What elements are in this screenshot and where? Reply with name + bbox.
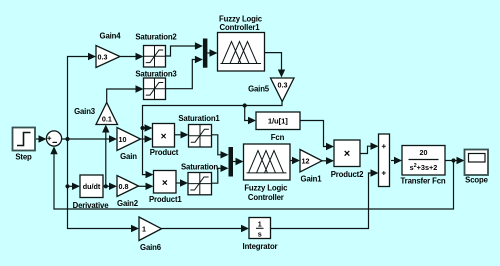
svg-text:×: × (162, 178, 168, 189)
wire feedback to Sum (50, 146, 453, 209)
integrator 1/s (243, 218, 278, 251)
svg-text:Gain6: Gain6 (140, 243, 162, 252)
svg-text:Gain: Gain (120, 152, 137, 161)
svg-text:Scope: Scope (465, 176, 488, 185)
wire Saturation to Mux2 input2 (212, 165, 229, 184)
svg-text:×: × (344, 148, 350, 160)
svg-text:12: 12 (302, 157, 310, 166)
mux Mux2 (229, 147, 234, 177)
wire error branch down to Derivative and Gain6 (68, 139, 140, 232)
product Product (150, 124, 179, 157)
svg-text:Gain4: Gain4 (100, 31, 122, 40)
transfer function Transfer Fcn 20/(s2+3s+2) (401, 146, 446, 186)
adder Add (379, 134, 390, 187)
node derivative branch junction (65, 184, 69, 188)
svg-text:Fcn: Fcn (271, 133, 285, 142)
svg-text:Gain5: Gain5 (248, 85, 270, 94)
wire Saturation3 to Mux1 input2 (166, 56, 203, 89)
svg-text:0.3: 0.3 (98, 52, 108, 61)
wire Fcn to Product2 input1 (300, 121, 334, 151)
svg-text:0.8: 0.8 (119, 182, 129, 191)
gain Gain1 value 12 (300, 150, 322, 184)
wire Product2 to Add input1 (360, 143, 379, 154)
wire Product1 to Saturation (176, 179, 188, 186)
fuzzy controller Fuzzy Logic Controller1 (218, 14, 265, 71)
svg-text:Saturation2: Saturation2 (135, 33, 177, 42)
svg-text:Product: Product (150, 148, 179, 157)
wire branch to Derivative (68, 183, 81, 190)
svg-text:Gain1: Gain1 (301, 174, 323, 183)
wire derivative node up to Gain3 (102, 125, 109, 187)
svg-text:1/u[1]: 1/u[1] (268, 117, 288, 126)
svg-text:du/dt: du/dt (83, 182, 101, 191)
gain Gain6 value 1 (139, 217, 162, 252)
wire Add to Transfer Fcn (391, 157, 402, 164)
source Step (13, 128, 36, 162)
saturation Saturation (181, 162, 218, 195)
wire Fuzzy Logic Controller1 to Gain5 (265, 53, 286, 78)
gain Gain2 value 0.8 (117, 176, 139, 208)
wire branch to Product input1 (143, 124, 153, 131)
svg-text:s: s (258, 230, 262, 239)
derivative du/dt (73, 175, 110, 210)
wire Gain2 to Product1 input2 (139, 183, 154, 190)
wire error branch up to Gain4 (68, 53, 97, 139)
svg-text:0.1: 0.1 (102, 115, 112, 124)
wire Gain3 to Saturation3 (107, 85, 144, 102)
mux Mux1 (203, 39, 208, 68)
gain Gain4 value 0.3 (96, 31, 121, 67)
wire Integrator to Add input2 (271, 169, 379, 228)
saturation Saturation2 (135, 33, 177, 67)
svg-text:Product1: Product1 (149, 195, 182, 204)
wire Sum output main line to Gain (62, 135, 118, 142)
wire Saturation1 to Mux2 input1 (212, 135, 229, 159)
wire Gain5 output bus (143, 102, 283, 179)
svg-text:Fuzzy Logic: Fuzzy Logic (219, 14, 263, 23)
gain Gain5 value 0.3 (down) (248, 78, 294, 102)
product Product1 (149, 171, 182, 204)
scope Scope (465, 150, 489, 185)
saturation Saturation3 (135, 70, 177, 100)
node Fcn branch junction (243, 103, 247, 107)
svg-text:10: 10 (119, 135, 127, 144)
wire Mux1 to Fuzzy Logic Controller1 (207, 49, 217, 56)
wire Fuzzy Logic Controller to Gain1 (290, 157, 300, 164)
wire Product to Saturation1 (175, 131, 189, 138)
node Product branch junction (140, 126, 144, 130)
fuzzy controller Fuzzy Logic Controller (244, 144, 291, 202)
product Product2 (331, 140, 364, 179)
svg-text:×: × (161, 131, 167, 142)
svg-text:Saturation1: Saturation1 (178, 114, 220, 123)
gain Gain3 value 0.1 (up) (74, 103, 117, 125)
wire Gain4 to Saturation2 (120, 53, 144, 60)
svg-text:1: 1 (258, 220, 262, 229)
function Fcn 1/u[1] (256, 112, 300, 142)
svg-text:Transfer Fcn: Transfer Fcn (401, 176, 446, 185)
saturation Saturation1 (178, 114, 220, 147)
svg-text:0.3: 0.3 (278, 81, 288, 90)
svg-text:Fuzzy Logic: Fuzzy Logic (244, 184, 288, 193)
svg-text:1: 1 (142, 225, 146, 234)
svg-text:Saturation3: Saturation3 (135, 70, 177, 79)
svg-text:Product2: Product2 (331, 170, 364, 179)
wire Derivative to Gain2 (103, 183, 117, 190)
wire branch to Fcn (245, 106, 256, 125)
wire Gain1 to Product2 input2 (322, 157, 334, 164)
svg-text:Gain3: Gain3 (74, 107, 96, 116)
node feedback junction (451, 158, 455, 162)
svg-text:Controller1: Controller1 (220, 23, 261, 32)
svg-text:Saturation: Saturation (181, 162, 218, 171)
svg-text:Gain2: Gain2 (117, 199, 139, 208)
svg-text:20: 20 (420, 148, 428, 157)
wire Saturation2 to Mux1 input1 (166, 42, 203, 56)
gain Gain value 10 (117, 128, 141, 162)
svg-text:Derivative: Derivative (73, 201, 110, 210)
wire Mux2 to Fuzzy Logic Controller (233, 158, 244, 165)
wire Step to Sum (35, 135, 47, 142)
svg-text:Integrator: Integrator (243, 242, 278, 251)
svg-text:Step: Step (15, 153, 32, 162)
node Gain3/Gain2 junction (104, 184, 108, 188)
wire Gain to Product input2 (141, 135, 153, 142)
svg-text:Controller: Controller (248, 193, 284, 202)
sum junction Sum (46, 131, 61, 146)
wire Transfer Fcn to Scope (445, 157, 465, 164)
node error junction (65, 137, 69, 141)
wire Gain6 to Integrator (162, 225, 250, 232)
